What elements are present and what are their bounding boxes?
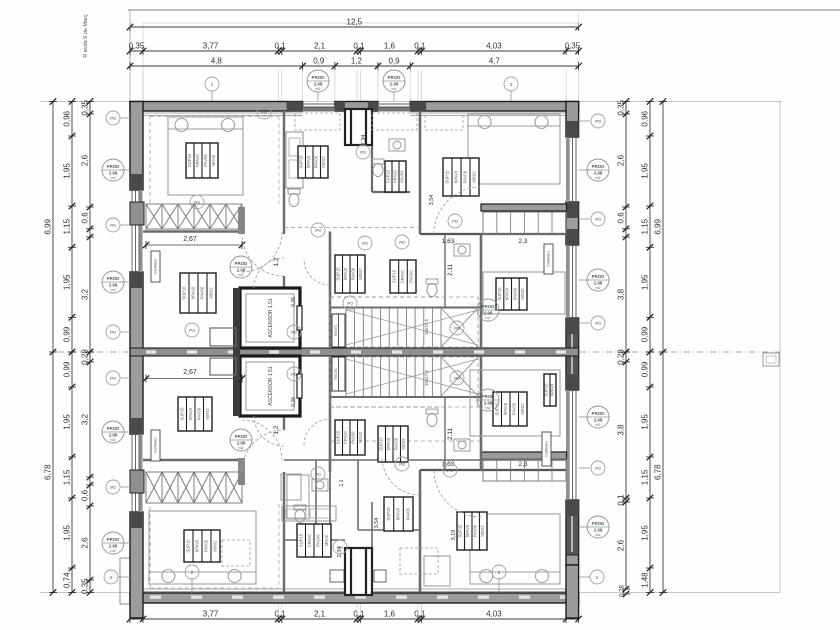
svg-text:1,95: 1,95 xyxy=(63,163,72,179)
svg-text:0,74: 0,74 xyxy=(63,572,72,588)
svg-text:PROD: PROD xyxy=(592,411,605,416)
svg-text:PROD: PROD xyxy=(235,261,248,266)
top wall seg C xyxy=(410,102,578,112)
svg-text:2.98: 2.98 xyxy=(484,400,493,405)
dashed room inner outline BL xyxy=(150,587,279,589)
svg-text:3,77: 3,77 xyxy=(203,42,219,51)
svg-text:PAVIS: PAVIS xyxy=(333,368,338,380)
left window jamb xyxy=(130,418,143,434)
svg-text:Cortinero: Cortinero xyxy=(154,438,158,454)
left chain col2 upper xyxy=(63,98,77,355)
svg-text:1,6: 1,6 xyxy=(384,610,396,619)
top dim chain openings xyxy=(127,57,582,71)
overall width dim 12,5 xyxy=(127,18,582,32)
svg-text:P0: P0 xyxy=(110,485,116,490)
svg-text:SUP15: SUP15 xyxy=(391,269,396,283)
svg-text:PAV06: PAV06 xyxy=(351,267,356,280)
svg-text:12,5: 12,5 xyxy=(347,18,363,27)
svg-text:2,6: 2,6 xyxy=(81,154,90,166)
svg-text:2.98: 2.98 xyxy=(594,280,603,285)
tag xyxy=(185,565,199,579)
svg-text:P0: P0 xyxy=(595,119,601,124)
svg-text:SUP15: SUP15 xyxy=(544,383,549,397)
corridor wall x284 upper xyxy=(283,111,285,234)
tub lower-left-middle xyxy=(281,474,301,500)
cortinero boxes xyxy=(151,251,160,282)
bath bottom wall y192 xyxy=(372,191,410,193)
svg-text:P0: P0 xyxy=(454,326,460,331)
tag xyxy=(333,540,347,554)
svg-text:SUP15: SUP15 xyxy=(379,437,384,451)
party wall axis (dash-dot) xyxy=(58,351,128,353)
dashed beam upper xyxy=(284,227,420,229)
bath partition x445 lower xyxy=(444,397,446,470)
svg-text:2,1: 2,1 xyxy=(314,42,326,51)
svg-text:2.98: 2.98 xyxy=(237,440,246,445)
interior wall y460 lower-left bedroom xyxy=(143,459,242,461)
svg-text:0,99: 0,99 xyxy=(63,326,72,342)
door arc bedroom BL xyxy=(242,420,282,460)
jamb win2 right xyxy=(410,102,426,112)
svg-text:PAV06: PAV06 xyxy=(405,507,410,520)
svg-text:2.98: 2.98 xyxy=(594,417,603,422)
svg-text:hPAV0: hPAV0 xyxy=(386,437,391,450)
svg-text:hPAV0: hPAV0 xyxy=(550,383,555,396)
left window jamb xyxy=(130,174,143,190)
svg-text:2,11: 2,11 xyxy=(447,264,454,277)
left window jamb xyxy=(130,272,143,288)
svg-text:m2: m2 xyxy=(316,87,321,91)
tag xyxy=(395,457,409,471)
svg-text:MINI2: MINI2 xyxy=(205,408,210,420)
label table mid-left lower xyxy=(178,397,212,431)
line y470 lower-right xyxy=(420,469,566,471)
lower-right bedroom wall y455 (dark) xyxy=(481,452,567,459)
svg-text:2.98: 2.98 xyxy=(314,81,323,86)
pilaster left wall lower xyxy=(130,470,144,493)
shutter strip win1 xyxy=(303,108,335,112)
stair top wall y308 xyxy=(330,307,481,309)
tag xyxy=(311,467,325,481)
stair treads upper run xyxy=(346,308,441,347)
line y234 upper-right xyxy=(420,233,566,235)
pilaster left wall xyxy=(130,202,144,225)
svg-text:3,2: 3,2 xyxy=(81,288,90,300)
svg-text:MINI2: MINI2 xyxy=(358,268,363,280)
svg-text:3,54: 3,54 xyxy=(429,195,435,206)
svg-text:hPAV0: hPAV0 xyxy=(307,534,312,547)
tag xyxy=(230,429,252,451)
svg-text:PAV06: PAV06 xyxy=(200,286,205,299)
left chain col3 upper xyxy=(81,98,95,355)
svg-text:P0: P0 xyxy=(194,200,200,205)
bottom-left wall cap xyxy=(120,558,130,604)
right wall seg3 xyxy=(566,318,579,390)
svg-text:1,1: 1,1 xyxy=(339,479,345,486)
svg-text:SUP15: SUP15 xyxy=(182,286,187,300)
svg-text:hPAV0: hPAV0 xyxy=(343,431,348,444)
svg-text:6,78: 6,78 xyxy=(654,464,663,480)
svg-text:4,8: 4,8 xyxy=(211,57,223,66)
svg-text:0,28: 0,28 xyxy=(617,349,626,365)
svg-text:3,19: 3,19 xyxy=(451,530,457,541)
svg-text:2.98: 2.98 xyxy=(484,310,493,315)
tag xyxy=(257,105,271,119)
tag xyxy=(358,236,372,250)
svg-text:hPAV0: hPAV0 xyxy=(392,170,397,183)
svg-text:hPAV0: hPAV0 xyxy=(306,155,311,168)
svg-text:PROD: PROD xyxy=(107,164,120,169)
svg-text:PROD: PROD xyxy=(592,164,605,169)
left windows xyxy=(131,190,133,272)
tag xyxy=(102,532,124,554)
tag xyxy=(504,77,518,91)
svg-text:0,35: 0,35 xyxy=(565,42,581,51)
left chain col3 lower xyxy=(81,349,95,596)
svg-text:PROD: PROD xyxy=(107,537,120,542)
top face extension line xyxy=(40,101,782,103)
PAVIS label boxes xyxy=(332,314,345,347)
svg-text:2,6: 2,6 xyxy=(617,154,626,166)
svg-text:SUP15: SUP15 xyxy=(299,155,304,169)
svg-text:P0: P0 xyxy=(360,150,366,155)
tag xyxy=(190,195,204,209)
tag xyxy=(106,218,120,232)
door arc bedroom BR xyxy=(434,470,481,517)
label table mid-right upper xyxy=(496,278,527,310)
right shutter strip xyxy=(566,245,569,318)
dashed room inner outline TL xyxy=(150,116,279,118)
narrow label box right lower room xyxy=(544,374,556,406)
left tags xyxy=(120,117,130,119)
svg-text:1,2: 1,2 xyxy=(351,57,363,66)
svg-text:4,03: 4,03 xyxy=(486,42,502,51)
svg-text:P0: P0 xyxy=(595,217,601,222)
svg-text:SUP15: SUP15 xyxy=(298,533,303,547)
svg-text:1,6: 1,6 xyxy=(384,42,396,51)
svg-text:P0: P0 xyxy=(595,466,601,471)
door lower right hall xyxy=(382,457,420,495)
svg-text:ASCENSOR 1,51: ASCENSOR 1,51 xyxy=(268,366,274,405)
interior wall y232 upper-left bedroom xyxy=(143,230,242,232)
stair cut diagonals xyxy=(346,310,478,345)
svg-text:MINI2: MINI2 xyxy=(358,431,363,443)
tag xyxy=(104,570,118,584)
svg-text:1,95: 1,95 xyxy=(63,414,72,430)
upper-right closet band xyxy=(483,212,566,234)
svg-text:2.98: 2.98 xyxy=(594,170,603,175)
svg-text:hPAV0: hPAV0 xyxy=(505,287,510,300)
wc xyxy=(288,189,300,207)
right wall seg1 xyxy=(566,102,579,138)
wc xyxy=(294,505,306,523)
right window jamb xyxy=(566,500,579,516)
tag xyxy=(591,114,605,128)
dashed closets below top windows xyxy=(295,113,340,130)
left wall seg1 xyxy=(130,102,143,191)
label table bottom-middle xyxy=(384,497,413,531)
svg-text:0,35: 0,35 xyxy=(129,42,145,51)
svg-text:P0: P0 xyxy=(315,228,321,233)
bed bottom-right xyxy=(470,514,560,584)
svg-text:P0: P0 xyxy=(454,376,460,381)
wc xyxy=(426,409,438,427)
svg-text:SUP15: SUP15 xyxy=(445,170,450,184)
tag xyxy=(587,159,609,181)
dashed curtain top-left xyxy=(149,115,151,205)
label table center lower 2 xyxy=(378,426,408,462)
wardrobe bottom-left xyxy=(146,472,242,503)
tag xyxy=(102,159,124,181)
svg-text:PAV06: PAV06 xyxy=(394,437,399,450)
tag xyxy=(106,325,120,339)
top wall seg B xyxy=(335,102,378,112)
label table mid-right lower xyxy=(493,392,527,426)
svg-text:SUP15: SUP15 xyxy=(386,507,391,521)
svg-text:P0: P0 xyxy=(189,328,195,333)
svg-text:PROD: PROD xyxy=(107,276,120,281)
tag xyxy=(106,111,120,125)
svg-text:0,1: 0,1 xyxy=(353,610,365,619)
right window jamb xyxy=(566,229,579,245)
corner blocks xyxy=(130,126,143,140)
svg-text:m2: m2 xyxy=(111,438,116,442)
tag xyxy=(443,463,457,477)
right chain col3 lower xyxy=(617,349,631,593)
svg-text:SUP15: SUP15 xyxy=(458,524,463,538)
svg-text:PROD: PROD xyxy=(107,426,120,431)
svg-text:P0: P0 xyxy=(261,110,267,115)
left wall seg2 xyxy=(130,272,143,434)
svg-text:PAV06: PAV06 xyxy=(315,534,320,547)
svg-text:1,63: 1,63 xyxy=(442,238,455,245)
svg-text:0,28: 0,28 xyxy=(81,349,90,365)
svg-text:2.98: 2.98 xyxy=(594,527,603,532)
tag xyxy=(477,299,499,321)
svg-text:6,78: 6,78 xyxy=(44,464,53,480)
bottom face extension line xyxy=(40,592,780,594)
tag xyxy=(230,256,252,278)
sofa right-middle upper xyxy=(483,272,565,314)
svg-text:P0: P0 xyxy=(110,376,116,381)
tag xyxy=(450,321,464,335)
wc xyxy=(426,279,438,297)
label table center upper 2 xyxy=(390,260,416,293)
tag xyxy=(106,371,120,385)
svg-text:PROD: PROD xyxy=(312,75,325,80)
svg-text:P0: P0 xyxy=(315,472,321,477)
svg-text:3,54: 3,54 xyxy=(374,518,380,529)
counter lower xyxy=(282,506,336,521)
svg-text:Cortinero: Cortinero xyxy=(154,259,158,275)
svg-text:PROD: PROD xyxy=(482,394,495,399)
right shutter boxes dark xyxy=(566,319,579,390)
svg-text:hPAV0: hPAV0 xyxy=(195,539,200,552)
label table top-left bedroom xyxy=(186,143,218,178)
svg-text:1,95: 1,95 xyxy=(641,163,650,179)
svg-text:PAV06: PAV06 xyxy=(204,539,209,552)
svg-text:0,35: 0,35 xyxy=(617,99,626,115)
tag xyxy=(102,421,124,443)
svg-text:m2: m2 xyxy=(486,316,491,320)
svg-text:PAV06: PAV06 xyxy=(203,154,208,167)
svg-text:2,67: 2,67 xyxy=(183,236,197,243)
svg-text:2.98: 2.98 xyxy=(109,282,118,287)
svg-text:P0: P0 xyxy=(110,330,116,335)
left shutter strip xyxy=(140,190,143,272)
svg-text:SUP15: SUP15 xyxy=(336,430,341,444)
svg-text:1,15: 1,15 xyxy=(63,218,72,234)
door jamb xyxy=(238,207,245,234)
sink xyxy=(454,244,470,256)
svg-text:m2: m2 xyxy=(596,286,601,290)
top wall seg A xyxy=(130,102,303,112)
right chain col3 upper xyxy=(617,98,631,355)
svg-text:2.98: 2.98 xyxy=(109,432,118,437)
vent shaft bottom xyxy=(345,548,372,595)
svg-text:hPAV0: hPAV0 xyxy=(396,507,401,520)
svg-text:1,15: 1,15 xyxy=(641,469,650,485)
svg-text:PROD: PROD xyxy=(235,434,248,439)
svg-text:Cortinero: Cortinero xyxy=(547,251,551,267)
svg-text:1,15: 1,15 xyxy=(641,218,650,234)
upper-right bedroom wall y206 (dark) xyxy=(481,204,567,211)
svg-text:2.98: 2.98 xyxy=(109,543,118,548)
svg-text:0,28: 0,28 xyxy=(291,297,297,307)
right overall dims xyxy=(654,98,668,595)
svg-text:m2: m2 xyxy=(111,288,116,292)
svg-text:PAV06: PAV06 xyxy=(314,155,319,168)
jamb win1 left xyxy=(287,102,303,112)
svg-text:m2: m2 xyxy=(239,446,244,450)
small vent boxes xyxy=(330,570,344,582)
svg-text:3,77: 3,77 xyxy=(203,610,219,619)
svg-text:MINI2: MINI2 xyxy=(324,534,329,546)
svg-text:2.98: 2.98 xyxy=(237,267,246,272)
bed top-left xyxy=(168,117,243,195)
svg-text:Cortinero: Cortinero xyxy=(545,441,549,457)
stair bottom wall y396 lower xyxy=(330,396,481,398)
elevator shaft xyxy=(240,356,302,416)
tag xyxy=(591,316,605,330)
svg-text:2,11: 2,11 xyxy=(447,428,454,441)
lower-right closet band xyxy=(483,459,566,481)
svg-text:0,1: 0,1 xyxy=(274,610,286,619)
stair dashed edge lower xyxy=(330,406,441,408)
svg-text:PROD: PROD xyxy=(592,521,605,526)
tag xyxy=(311,223,325,237)
svg-text:2,3: 2,3 xyxy=(518,238,527,245)
svg-text:0,96: 0,96 xyxy=(641,110,650,126)
right chain col2 upper xyxy=(641,98,655,355)
sink xyxy=(312,479,328,491)
top dim chain detail xyxy=(127,42,582,56)
svg-text:2.98: 2.98 xyxy=(109,170,118,175)
svg-text:2,6: 2,6 xyxy=(617,539,626,551)
svg-text:hPAV0: hPAV0 xyxy=(188,407,193,420)
tag xyxy=(395,235,409,249)
door corridor lower xyxy=(242,430,284,472)
svg-text:P0: P0 xyxy=(291,330,297,335)
svg-text:P0: P0 xyxy=(447,468,453,473)
svg-text:P0: P0 xyxy=(399,240,405,245)
door arc bedroom TL xyxy=(242,232,282,272)
legend box right xyxy=(763,353,779,366)
svg-text:SUP15: SUP15 xyxy=(336,267,341,281)
label table mid-left xyxy=(180,273,216,313)
svg-text:hPAV0: hPAV0 xyxy=(454,170,459,183)
wall x481 lower right rooms xyxy=(480,356,483,470)
svg-text:2,1: 2,1 xyxy=(314,610,326,619)
svg-text:0,1: 0,1 xyxy=(274,42,286,51)
door entry lower xyxy=(254,416,284,446)
svg-text:MINI2: MINI2 xyxy=(211,154,216,166)
tag xyxy=(492,565,506,579)
stair dashed boundaries xyxy=(330,297,478,347)
right window jamb xyxy=(566,374,579,390)
tag xyxy=(587,516,609,538)
svg-text:hPAV0: hPAV0 xyxy=(400,270,405,283)
svg-text:1,95: 1,95 xyxy=(641,274,650,290)
label table center upper xyxy=(335,255,365,293)
svg-text:m2: m2 xyxy=(596,533,601,537)
label table center lower xyxy=(335,420,365,455)
svg-text:3,8: 3,8 xyxy=(617,424,626,436)
svg-text:0,1: 0,1 xyxy=(617,494,626,506)
tag xyxy=(591,461,605,475)
door middle upper xyxy=(304,259,330,285)
svg-text:0,6: 0,6 xyxy=(81,212,90,224)
tag xyxy=(102,271,124,293)
svg-text:PROD: PROD xyxy=(592,274,605,279)
svg-text:P0: P0 xyxy=(347,301,353,306)
left window jamb xyxy=(130,512,143,528)
sink xyxy=(389,139,405,151)
party wall band xyxy=(130,348,579,356)
tag xyxy=(383,70,405,92)
svg-text:0,99: 0,99 xyxy=(641,361,650,377)
right windows xyxy=(568,137,570,202)
svg-text:0,1: 0,1 xyxy=(414,42,426,51)
right shutter strip xyxy=(566,137,569,202)
stair landing X upper xyxy=(441,308,478,347)
right wall seg4 xyxy=(566,500,579,565)
tag xyxy=(591,212,605,226)
svg-text:P0: P0 xyxy=(595,321,601,326)
bath partition x445 upper xyxy=(444,234,446,308)
tag xyxy=(106,480,120,494)
right wall seg5 xyxy=(566,565,579,618)
tub lower-left xyxy=(287,475,309,519)
sink counter on corridor wall xyxy=(286,132,303,188)
svg-text:SUP15: SUP15 xyxy=(186,539,191,553)
svg-text:MINI2: MINI2 xyxy=(480,525,485,537)
svg-text:hPAV0: hPAV0 xyxy=(191,286,196,299)
svg-text:10x17,5: 10x17,5 xyxy=(424,369,429,386)
svg-text:0,96: 0,96 xyxy=(63,110,72,126)
tag xyxy=(587,406,609,428)
svg-text:1,48: 1,48 xyxy=(641,572,650,588)
svg-text:1,2: 1,2 xyxy=(273,425,280,434)
tag xyxy=(448,214,462,228)
bottom wall xyxy=(130,593,579,603)
svg-text:P0: P0 xyxy=(110,223,116,228)
top extension ticks down to wall xyxy=(129,70,131,101)
wall x420 lower xyxy=(419,470,422,592)
label table top-middle xyxy=(298,146,328,178)
tag xyxy=(185,323,199,337)
wardrobe top-left xyxy=(146,204,242,229)
